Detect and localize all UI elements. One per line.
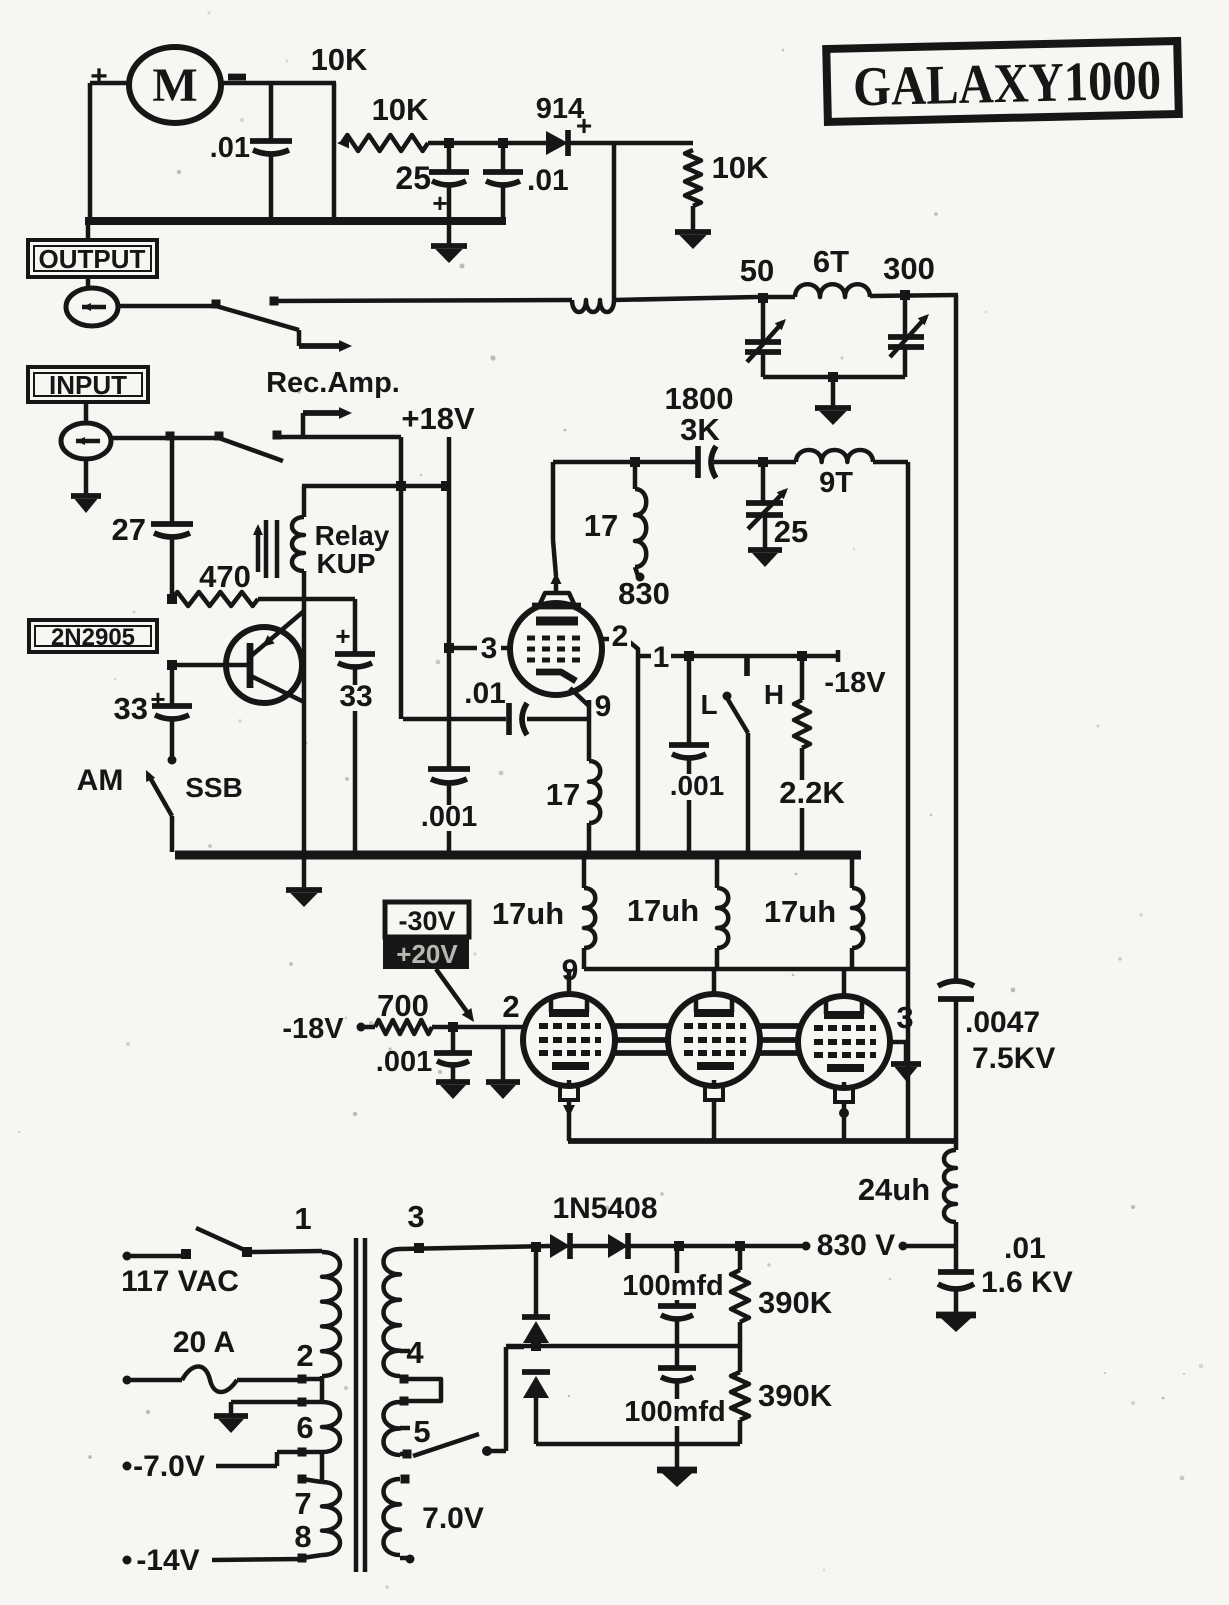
svg-text:.01: .01 bbox=[210, 132, 250, 164]
svg-text:+: + bbox=[90, 60, 108, 93]
svg-text:SSB: SSB bbox=[185, 772, 243, 803]
svg-text:25: 25 bbox=[395, 160, 431, 196]
svg-text:6: 6 bbox=[296, 1410, 313, 1445]
svg-text:17uh: 17uh bbox=[764, 894, 836, 929]
svg-text:33: 33 bbox=[114, 691, 148, 726]
svg-text:20 A: 20 A bbox=[173, 1326, 235, 1359]
svg-text:5: 5 bbox=[413, 1414, 430, 1449]
svg-text:17uh: 17uh bbox=[627, 893, 699, 928]
svg-text:.001: .001 bbox=[421, 801, 477, 833]
svg-text:24uh: 24uh bbox=[858, 1172, 930, 1207]
svg-text:KUP: KUP bbox=[316, 548, 375, 579]
svg-text:+20V: +20V bbox=[396, 939, 458, 969]
svg-text:8: 8 bbox=[294, 1519, 311, 1554]
svg-text:6T: 6T bbox=[813, 244, 849, 279]
svg-text:-7.0V: -7.0V bbox=[133, 1450, 205, 1483]
svg-text:.01: .01 bbox=[464, 677, 506, 710]
svg-text:1: 1 bbox=[294, 1201, 311, 1236]
svg-text:-14V: -14V bbox=[136, 1544, 199, 1577]
svg-text:17: 17 bbox=[546, 777, 580, 812]
svg-text:2N2905: 2N2905 bbox=[51, 624, 135, 651]
svg-text:9: 9 bbox=[595, 690, 612, 723]
svg-text:2: 2 bbox=[296, 1338, 313, 1373]
svg-text:+18V: +18V bbox=[401, 401, 475, 436]
svg-text:-18V: -18V bbox=[824, 667, 886, 699]
svg-text:700: 700 bbox=[377, 988, 429, 1023]
svg-text:7.5KV: 7.5KV bbox=[972, 1042, 1055, 1075]
svg-text:7.0V: 7.0V bbox=[422, 1502, 484, 1535]
svg-text:830: 830 bbox=[618, 576, 670, 611]
svg-text:-18V: -18V bbox=[282, 1013, 344, 1045]
svg-text:.01: .01 bbox=[527, 164, 569, 197]
svg-text:M: M bbox=[152, 59, 197, 112]
svg-text:390K: 390K bbox=[758, 1378, 833, 1413]
svg-text:4: 4 bbox=[406, 1335, 424, 1370]
svg-text:AM: AM bbox=[77, 764, 124, 797]
svg-text:830 V: 830 V bbox=[817, 1229, 895, 1262]
svg-text:9T: 9T bbox=[819, 467, 853, 499]
svg-text:Relay: Relay bbox=[315, 520, 390, 551]
svg-text:10K: 10K bbox=[712, 150, 769, 185]
svg-text:.001: .001 bbox=[376, 1046, 432, 1078]
svg-text:3: 3 bbox=[407, 1199, 424, 1234]
svg-text:INPUT: INPUT bbox=[49, 370, 127, 400]
svg-text:.01: .01 bbox=[1004, 1232, 1046, 1265]
svg-text:10K: 10K bbox=[372, 92, 429, 127]
svg-text:100mfd: 100mfd bbox=[622, 1270, 724, 1302]
svg-text:2: 2 bbox=[612, 620, 629, 653]
svg-text:1: 1 bbox=[653, 641, 670, 674]
svg-text:3K: 3K bbox=[680, 412, 720, 447]
svg-text:+: + bbox=[150, 684, 165, 714]
svg-text:2.2K: 2.2K bbox=[779, 775, 845, 810]
svg-text:10K: 10K bbox=[311, 42, 368, 77]
svg-text:OUTPUT: OUTPUT bbox=[39, 244, 146, 274]
svg-text:300: 300 bbox=[883, 251, 935, 286]
svg-text:H: H bbox=[764, 679, 784, 710]
svg-text:GALAXY1000: GALAXY1000 bbox=[852, 49, 1161, 118]
svg-text:1.6 KV: 1.6 KV bbox=[981, 1266, 1073, 1299]
svg-text:.0047: .0047 bbox=[965, 1006, 1040, 1039]
svg-text:27: 27 bbox=[112, 512, 146, 547]
svg-text:100mfd: 100mfd bbox=[624, 1396, 726, 1428]
svg-text:+: + bbox=[335, 621, 350, 651]
svg-text:Rec.Amp.: Rec.Amp. bbox=[266, 367, 400, 399]
svg-text:914: 914 bbox=[536, 93, 584, 125]
svg-text:17: 17 bbox=[584, 508, 618, 543]
svg-text:1N5408: 1N5408 bbox=[552, 1192, 657, 1225]
svg-text:17uh: 17uh bbox=[492, 896, 564, 931]
svg-text:470: 470 bbox=[199, 559, 251, 594]
svg-text:1800: 1800 bbox=[665, 381, 734, 416]
svg-text:25: 25 bbox=[774, 514, 808, 549]
svg-text:117 VAC: 117 VAC bbox=[121, 1265, 239, 1298]
svg-text:33: 33 bbox=[339, 680, 372, 713]
svg-text:3: 3 bbox=[896, 1000, 913, 1035]
svg-text:50: 50 bbox=[740, 253, 774, 288]
svg-text:7: 7 bbox=[294, 1486, 311, 1521]
svg-text:.001: .001 bbox=[670, 770, 725, 801]
svg-text:3: 3 bbox=[481, 632, 498, 665]
svg-text:390K: 390K bbox=[758, 1285, 833, 1320]
svg-text:-30V: -30V bbox=[398, 906, 455, 936]
svg-text:+: + bbox=[432, 188, 447, 218]
svg-text:L: L bbox=[700, 689, 717, 720]
svg-text:2: 2 bbox=[502, 989, 519, 1024]
